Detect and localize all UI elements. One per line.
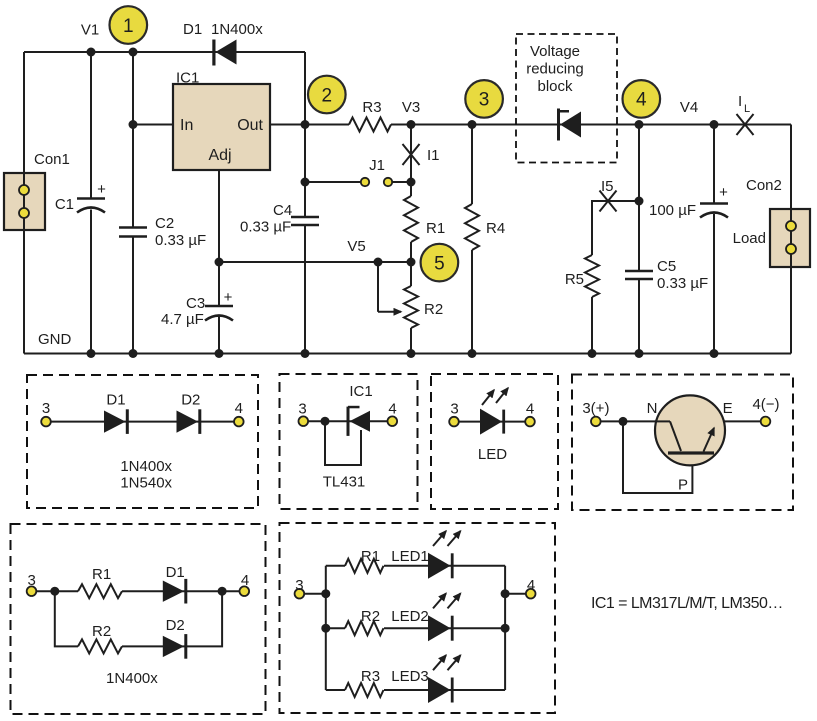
- wire Out to R3: [270, 124, 349, 126]
- pin 4 (box A): [234, 400, 244, 426]
- node 2: [308, 76, 346, 114]
- connector Con2: [733, 177, 810, 267]
- voltage reducing block: [516, 34, 617, 163]
- svg-text:Con1: Con1: [34, 151, 70, 168]
- wire I5 branch: [592, 201, 639, 255]
- svg-text:I1: I1: [427, 147, 440, 164]
- svg-text:R2: R2: [424, 301, 443, 318]
- potentiometer R2: [378, 262, 443, 328]
- wire left bus (box F): [299, 593, 325, 595]
- wire top rail V1: [24, 51, 305, 53]
- wire transistor base loop P: [623, 421, 692, 493]
- svg-text:4: 4: [388, 401, 396, 418]
- junction dots (box F): [321, 589, 509, 633]
- LED3 (box F): [391, 655, 460, 703]
- diode D2 (box A): [177, 392, 202, 434]
- svg-text:V3: V3: [402, 99, 420, 116]
- wire box C: [454, 421, 530, 423]
- wire mid rail R3 to Con2: [391, 124, 791, 126]
- svg-text:2: 2: [322, 85, 333, 106]
- svg-text:Load: Load: [733, 230, 766, 247]
- svg-text:R3: R3: [361, 668, 380, 685]
- diode D1: [183, 21, 263, 66]
- resistor R3 (box F): [345, 668, 383, 697]
- svg-text:LED1: LED1: [391, 548, 429, 565]
- svg-text:R1: R1: [426, 220, 445, 237]
- pin 3 (box A): [41, 400, 51, 426]
- wire transistor to pin4: [716, 420, 766, 422]
- svg-text:1: 1: [123, 16, 134, 37]
- svg-text:TL431: TL431: [323, 474, 366, 491]
- capacitor C4: [240, 202, 319, 236]
- junction dot (box B): [321, 417, 330, 426]
- svg-text:Voltage: Voltage: [530, 43, 580, 60]
- svg-text:4: 4: [235, 400, 243, 417]
- svg-text:C5: C5: [657, 258, 676, 275]
- resistor R1: [404, 196, 445, 242]
- pin 4 (box E): [240, 572, 250, 596]
- pin 3 (box E): [27, 572, 37, 596]
- resistor R2 (box E): [78, 623, 122, 653]
- svg-text:block: block: [537, 78, 573, 95]
- junction dots (box E): [50, 587, 226, 596]
- resistor R3: [349, 99, 391, 132]
- svg-text:C1: C1: [55, 196, 74, 213]
- pin 3(+) (box D): [582, 400, 609, 426]
- svg-text:L: L: [744, 103, 750, 115]
- svg-text:R1: R1: [92, 566, 111, 583]
- wire V3 column: [410, 125, 412, 354]
- LED1 (box F): [391, 531, 460, 579]
- pin 4 (box B): [388, 401, 398, 427]
- connector Con1: [4, 151, 70, 230]
- diode D2 (box E): [163, 617, 188, 659]
- resistor R1 (box F): [345, 548, 383, 573]
- value label 1N400x 1N540x: [120, 458, 172, 492]
- svg-text:R5: R5: [565, 271, 584, 288]
- svg-text:D1: D1: [106, 392, 125, 409]
- pin Con2 lower: [786, 244, 796, 254]
- svg-text:1N400x: 1N400x: [120, 458, 172, 475]
- wire row 1 (box F): [326, 565, 345, 567]
- svg-text:N: N: [647, 400, 658, 417]
- svg-text:0.33 µF: 0.33 µF: [657, 275, 708, 292]
- svg-text:0.33 µF: 0.33 µF: [155, 232, 206, 249]
- IC1 regulator: [173, 70, 270, 171]
- svg-text:D1: D1: [166, 564, 185, 581]
- resistor R2 (box F): [345, 608, 383, 635]
- resistor R1 (box E): [78, 566, 122, 598]
- diode D1 (box E): [163, 564, 188, 604]
- svg-text:D1: D1: [183, 21, 202, 38]
- pin 3 (box F): [295, 577, 305, 599]
- pin 4 (box F): [526, 577, 536, 599]
- wire row 3 (box F): [326, 689, 345, 691]
- wire right bus (box F): [505, 593, 531, 595]
- svg-text:IC1 = LM317L/M/T, LM350…: IC1 = LM317L/M/T, LM350…: [591, 595, 783, 612]
- svg-text:3(+): 3(+): [582, 400, 609, 417]
- svg-text:4(−): 4(−): [752, 396, 779, 413]
- current break I5: [600, 178, 617, 212]
- svg-text:Con2: Con2: [746, 177, 782, 194]
- svg-text:4.7 µF: 4.7 µF: [161, 311, 204, 328]
- svg-text:Adj: Adj: [208, 147, 231, 164]
- wire J1 right segment: [393, 181, 412, 183]
- svg-text:R4: R4: [486, 220, 505, 237]
- wire C2 column: [132, 52, 134, 354]
- wire V5 row: [219, 261, 411, 263]
- svg-text:4: 4: [636, 90, 647, 111]
- wire TL431 feedback loop: [325, 421, 361, 465]
- svg-text:3: 3: [28, 572, 36, 589]
- svg-text:3: 3: [479, 90, 490, 111]
- wire R5 lower: [591, 297, 593, 354]
- svg-text:IC1: IC1: [176, 70, 199, 87]
- svg-text:GND: GND: [38, 331, 72, 348]
- option box A: series diodes: [27, 375, 258, 508]
- svg-text:C2: C2: [155, 215, 174, 232]
- wire box B: [303, 420, 392, 422]
- node 1: [110, 6, 148, 44]
- node 5: [421, 244, 459, 282]
- svg-text:P: P: [678, 477, 688, 494]
- svg-text:4: 4: [527, 577, 535, 594]
- svg-text:1N400x: 1N400x: [211, 21, 263, 38]
- option box C: LED: [431, 374, 558, 509]
- option box D: transistor junction: [572, 375, 793, 511]
- wire C1 column: [90, 52, 92, 354]
- svg-text:Out: Out: [237, 117, 263, 134]
- svg-text:D2: D2: [166, 617, 185, 634]
- wire row 2 (box F): [326, 627, 345, 629]
- wire box E lower branch: [55, 591, 78, 646]
- svg-text:3: 3: [450, 401, 458, 418]
- svg-text:0.33 µF: 0.33 µF: [240, 219, 291, 236]
- capacitor C3: [161, 289, 233, 328]
- wire left edge: [23, 52, 25, 354]
- svg-text:V4: V4: [680, 99, 698, 116]
- pin Con1 lower: [19, 208, 29, 218]
- capacitor C1: [55, 181, 106, 213]
- svg-text:4: 4: [526, 401, 534, 418]
- svg-text:C4: C4: [273, 202, 292, 219]
- jumper J1: [361, 157, 392, 186]
- wire 100uF column: [713, 125, 715, 354]
- wire node4 column: [638, 125, 640, 354]
- svg-text:D2: D2: [181, 392, 200, 409]
- svg-text:3: 3: [295, 577, 303, 594]
- svg-text:R2: R2: [92, 623, 111, 640]
- junction dot (box D): [619, 417, 628, 426]
- svg-text:J1: J1: [369, 157, 385, 174]
- pin 3 (box C): [449, 401, 459, 427]
- option box B: TL431: [280, 374, 418, 509]
- wire right edge into Con2: [790, 125, 792, 354]
- svg-text:R3: R3: [362, 99, 381, 116]
- capacitor 100uF: [649, 184, 728, 219]
- option box F: LED strings: [280, 523, 556, 713]
- svg-text:R2: R2: [361, 608, 380, 625]
- svg-text:1N540x: 1N540x: [120, 475, 172, 492]
- pin 4 (box C): [525, 401, 535, 427]
- wire J1 left segment: [305, 181, 361, 183]
- svg-text:5: 5: [434, 253, 445, 274]
- svg-text:1N400x: 1N400x: [106, 670, 158, 687]
- svg-text:LED: LED: [478, 446, 507, 463]
- capacitor C2: [119, 215, 206, 249]
- diode D1 (box A): [104, 392, 129, 434]
- wire R4 column: [471, 125, 473, 354]
- svg-text:3: 3: [298, 401, 306, 418]
- node 3: [465, 80, 503, 118]
- LED (box C): [478, 388, 508, 463]
- resistor R5: [565, 255, 599, 297]
- svg-text:+: +: [97, 181, 106, 198]
- wire box E top branch: [32, 590, 79, 592]
- option box E: resistors with diodes: [11, 524, 266, 714]
- svg-text:LED3: LED3: [391, 668, 429, 685]
- svg-text:I: I: [738, 93, 742, 110]
- current break IL: [737, 93, 754, 135]
- svg-text:IC1: IC1: [349, 383, 372, 400]
- resistor R4: [465, 204, 505, 250]
- capacitor C5: [625, 258, 708, 292]
- svg-text:E: E: [723, 400, 733, 417]
- node 4: [623, 80, 661, 118]
- pin Con2 upper: [786, 221, 796, 231]
- svg-text:I5: I5: [601, 178, 614, 195]
- wire In pin: [133, 124, 173, 126]
- svg-text:4: 4: [241, 572, 249, 589]
- pin 4(-) (box D): [752, 396, 779, 426]
- wire ground rail: [24, 353, 791, 355]
- wire Adj column: [218, 170, 220, 354]
- transistor Q (N-E-P): [647, 395, 733, 493]
- pin 3 (box B): [298, 401, 308, 427]
- pin Con1 upper: [19, 185, 29, 195]
- svg-text:C3: C3: [186, 295, 205, 312]
- svg-text:reducing: reducing: [526, 61, 584, 78]
- shunt regulator IC1 TL431: [323, 383, 373, 491]
- current break I1: [403, 144, 440, 165]
- svg-text:100 µF: 100 µF: [649, 202, 696, 219]
- wire box A: [46, 421, 239, 423]
- svg-text:3: 3: [42, 400, 50, 417]
- svg-text:LED2: LED2: [391, 608, 429, 625]
- svg-text:R1: R1: [361, 548, 380, 565]
- svg-text:V5: V5: [347, 238, 365, 255]
- svg-text:+: +: [224, 289, 233, 306]
- zener diode: [557, 109, 581, 141]
- LED2 (box F): [391, 593, 460, 641]
- svg-text:+: +: [719, 184, 728, 201]
- wire pin3 to transistor: [596, 420, 670, 422]
- svg-text:In: In: [180, 117, 193, 134]
- svg-text:V1: V1: [81, 22, 99, 39]
- wire node2 column: [304, 52, 306, 354]
